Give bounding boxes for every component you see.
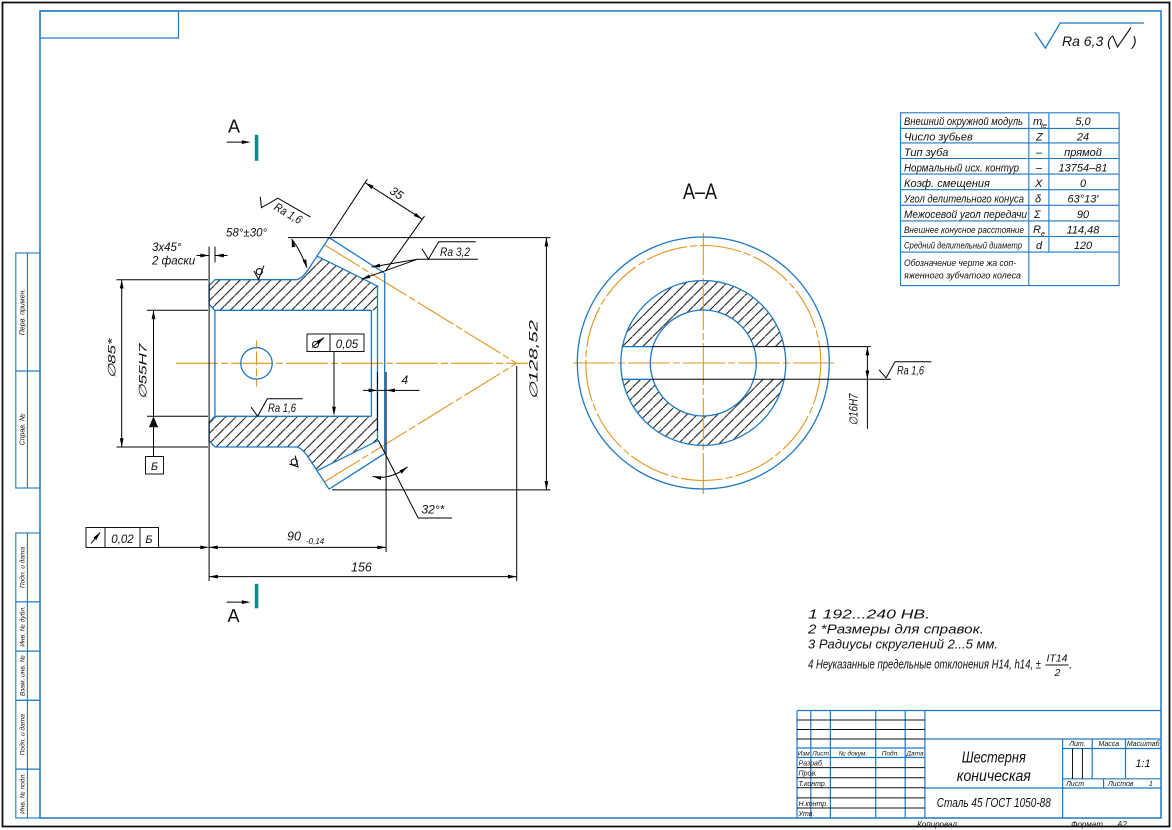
svg-text:Число зубьев: Число зубьев [904,131,973,143]
centre axis line (orange dash-dot) [176,245,528,483]
left face [208,286,210,305]
svg-text:Обозначение черте жа соп-: Обозначение черте жа соп- [904,258,1016,269]
left margin graph: Inv. No dubl. [16,602,40,651]
svg-text:2 *Размеры для справок.: 2 *Размеры для справок. [807,623,984,637]
bore back face [370,310,372,416]
svg-text:58°±30°: 58°±30° [226,228,267,240]
svg-text:Утв.: Утв. [798,811,815,818]
svg-text:R: R [1033,224,1041,236]
back cone face inner [377,286,379,440]
svg-text:Z: Z [1035,131,1044,143]
pitch cone line upper [324,245,517,364]
ext line left face [208,247,210,581]
32 deg arc [373,467,408,477]
svg-text:Взам. инв. №: Взам. инв. № [20,655,27,696]
Ra1,6 symbol A-A [879,362,931,378]
left margin graph: Vzam. inv. No [16,651,40,700]
svg-text:коническая: коническая [957,768,1031,785]
fillet top [296,268,309,279]
svg-text:Изм: Изм [798,750,811,757]
svg-text:Σ: Σ [1033,209,1041,221]
svg-text:яженного зубчатого колеса: яженного зубчатого колеса [903,270,1021,281]
fraction bar [1046,664,1069,666]
svg-text:∅55Н7: ∅55Н7 [138,342,150,399]
svg-text:Межосевой угол передачи: Межосевой угол передачи [904,209,1027,221]
3x45 dim lines [197,255,210,257]
title block right header labels [1068,740,1160,748]
d85 dimension line [121,280,123,447]
pitch circle (orange dash-dot) [586,246,821,481]
svg-text:А2: А2 [1116,820,1127,829]
svg-text:32°*: 32°* [422,503,445,517]
title block thin black row lines [797,720,1082,808]
svg-text:δ: δ [1035,194,1042,206]
tooth tip line bottom [329,454,384,489]
svg-text:А–А: А–А [683,179,717,204]
svg-text:Тип зуба: Тип зуба [904,147,948,159]
apex ext line [516,366,518,581]
svg-text:Справ. №: Справ. № [20,413,27,445]
dim 4 line [363,389,420,391]
svg-text:63°13′: 63°13′ [1068,194,1100,206]
tooth root line top [317,256,378,286]
svg-text:3 Радиусы скруглений 2...5 мм: 3 Радиусы скруглений 2...5 мм. [808,638,998,652]
svg-text:90: 90 [287,530,301,544]
svg-text:0: 0 [1080,178,1087,190]
svg-text:Ra 3,2: Ra 3,2 [440,245,470,259]
fillet bottom [296,447,309,458]
hole slot extension lines (black) [652,347,932,429]
runout leader [333,352,335,415]
Ra1,6 bore symbol [251,399,303,417]
svg-text:Листов: Листов [1107,781,1134,788]
centre lines A-A (orange) [573,233,834,494]
gear parameters table [901,113,1120,286]
table row 4: basic rack [904,162,1107,174]
outer chamfer 3x45 bottom [209,441,215,447]
front cone face bottom [309,458,329,489]
svg-text:te: te [1041,123,1047,130]
svg-text:А: А [228,606,240,626]
svg-text:–: – [1035,147,1043,159]
surface check top edge [254,266,264,280]
svg-text:Т.контр.: Т.контр. [799,781,827,788]
surface check bottom fillet [288,456,302,470]
svg-text:Копировал: Копировал [917,820,957,829]
svg-text:d: d [1036,240,1043,252]
svg-text:–: – [1035,162,1043,174]
d128,52 dimension line [545,238,547,490]
32 deg leader [378,440,452,518]
left margin graph: Sprav. No [16,371,40,488]
back cone face outer [384,273,386,454]
pitch cone line lower [324,363,517,482]
svg-text:А: А [228,117,240,137]
svg-text:0,02: 0,02 [111,534,134,546]
front cone face top [309,238,329,269]
tooth root line bottom [317,440,378,470]
svg-text:90: 90 [1077,209,1090,221]
hub bottom edge [215,446,296,448]
d16H7 dimension line [866,347,868,429]
svg-text:Коэф. смещения: Коэф. смещения [904,178,990,190]
svg-text:Перв. примен.: Перв. примен. [20,289,27,336]
hub outer circle [621,281,786,446]
datum stem [153,427,155,456]
svg-text:∅85*: ∅85* [107,337,119,378]
tooth tip line top [329,238,384,273]
svg-text:Подп. и дата: Подп. и дата [19,547,27,589]
d55H7 extension lines [147,309,208,311]
sheet row labels [1065,781,1153,788]
svg-text:Масштаб: Масштаб [1127,740,1161,748]
svg-text:Подп.: Подп. [882,749,899,757]
table row 8: outer cone distance [904,224,1100,238]
ext line top (for d128,52) [288,237,551,239]
svg-text:.: . [1069,658,1072,672]
dim 4 ext line [376,372,378,431]
svg-text:∅128,52: ∅128,52 [529,319,541,400]
left margin graph: Podp. i data (lower) [16,700,40,769]
tolerance frame 0,02 [86,528,159,548]
d55H7 dimension line [153,310,155,427]
svg-text:Б: Б [145,534,152,546]
left margin graph: Perv. primen. [16,253,40,371]
title block frame [797,711,1161,819]
d85 extension lines [117,279,209,281]
title block row labels [798,760,829,818]
ext line chamfer [214,247,216,263]
arrows [242,140,251,144]
dim 4 / 90 shared ext line [385,372,387,552]
svg-text:Лит.: Лит. [1068,741,1085,748]
svg-text:156: 156 [351,561,372,575]
table row 6: pitch cone angle [903,194,1099,206]
svg-text:Н.контр.: Н.контр. [799,801,829,808]
datum box B [146,457,164,475]
hole slot edges (blue) [621,347,652,380]
table row 7: shaft angle [904,209,1090,221]
hole vertical centre line [256,341,258,387]
bore bottom line [215,415,372,417]
left margin graph: Inv. No podl. [16,769,40,818]
svg-text:Инв. № дубл.: Инв. № дубл. [19,606,27,647]
svg-text:4: 4 [402,373,409,387]
Ra3,2 symbol [418,242,478,260]
svg-text:Разраб.: Разраб. [799,760,824,768]
svg-text:Лист: Лист [811,750,829,757]
svg-text:Ra 1,6: Ra 1,6 [897,364,924,378]
svg-text:Шестерня: Шестерня [962,750,1026,767]
runout tolerance frame 0,05 [307,334,364,352]
svg-text:Угол делительного конуса: Угол делительного конуса [903,194,1024,206]
svg-text:Средний делительный диаметр: Средний делительный диаметр [904,241,1022,252]
svg-text:прямой: прямой [1064,147,1102,159]
table row 3: tooth type [904,147,1102,159]
outer tip circle [577,237,829,489]
hatched section: upper hub/rim area [209,256,378,310]
bore chamfer edge [214,310,216,416]
hub top edge [215,279,296,281]
svg-text:Внешнее конусное расстояние: Внешнее конусное расстояние [904,225,1024,236]
svg-text:Нормальный исх. контур: Нормальный исх. контур [904,162,1019,174]
table row 1: module [904,116,1092,130]
svg-text:№ докум.: № докум. [839,749,868,757]
svg-text:5,0: 5,0 [1075,116,1091,128]
156 dimension line [209,576,517,578]
svg-text:∅16Н7: ∅16Н7 [849,393,861,426]
tolerance leader 0,02 [159,546,208,548]
svg-text:Подп. и дата: Подп. и дата [19,714,27,756]
table row 5: shift coef [904,178,1087,190]
svg-text:Б: Б [151,461,158,473]
bore chamfer bottom [209,416,215,422]
svg-text:0,05: 0,05 [336,339,359,351]
svg-text:Пров.: Пров. [799,771,818,778]
svg-text:Ra 6,3 (: Ra 6,3 ( [1062,33,1113,49]
svg-text:X: X [1034,178,1043,190]
radial hole d16 [241,348,272,379]
table row 9: mean pitch diameter [904,240,1093,252]
datum triangle [149,416,158,427]
title block header labels [798,749,924,757]
outer chamfer 3x45 top [209,280,215,286]
table row 10: mating gear ref [903,258,1021,282]
ext line bottom (for d128,52) [332,489,551,491]
svg-text:114,48: 114,48 [1067,225,1101,237]
svg-text:1 192...240 НВ.: 1 192...240 НВ. [808,608,930,622]
58 deg arc [292,239,307,267]
35 dim extension lines [330,179,367,236]
svg-text:Дата: Дата [905,750,924,757]
left margin graph: Podp. i data (upper) [16,533,40,602]
svg-text:1: 1 [1149,781,1153,788]
svg-text:e: e [1041,231,1045,238]
svg-text:Внешний окружной модуль: Внешний окружной модуль [904,116,1023,128]
svg-text:13754–81: 13754–81 [1059,162,1108,174]
section A arrows [227,141,244,143]
top-left stamp box [40,11,179,38]
svg-text:2 фаски: 2 фаски [151,256,196,268]
bore circle [650,310,756,416]
hatched hub annulus [621,281,786,446]
svg-text:3х45°: 3х45° [152,242,182,254]
bore top line [215,309,372,311]
section mark A bottom [255,584,258,609]
section mark A top [255,135,258,161]
bore chamfer top [209,304,215,310]
svg-text:Сталь 45 ГОСТ 1050-88: Сталь 45 ГОСТ 1050-88 [937,795,1052,810]
svg-text:4 Неуказанные предельные откл: 4 Неуказанные предельные отклонения Н14,… [808,658,1041,672]
hole slot band [621,347,787,379]
Ra1,6 rotated symbol (front face) [256,190,311,231]
svg-text:-0,14: -0,14 [306,537,325,546]
svg-text:Масса: Масса [1098,741,1119,748]
svg-text:Лист: Лист [1065,781,1084,788]
svg-text:Формат: Формат [1071,820,1103,829]
table row 2: teeth count [904,131,1089,143]
Ra3,2 leaders [361,259,417,279]
90 dimension line [209,546,386,548]
svg-text:IT14: IT14 [1047,653,1068,665]
svg-text:2: 2 [1054,667,1061,679]
svg-text:120: 120 [1074,240,1093,252]
svg-text:Ra 1,6: Ra 1,6 [268,401,296,415]
gear body contour (blue) [209,238,385,490]
hatched section: lower hub/rim area [209,416,378,470]
35 dimension line [365,183,422,220]
svg-text:1:1: 1:1 [1135,758,1150,770]
svg-text:24: 24 [1076,131,1089,143]
svg-text:Инв. № подл.: Инв. № подл. [19,773,27,814]
